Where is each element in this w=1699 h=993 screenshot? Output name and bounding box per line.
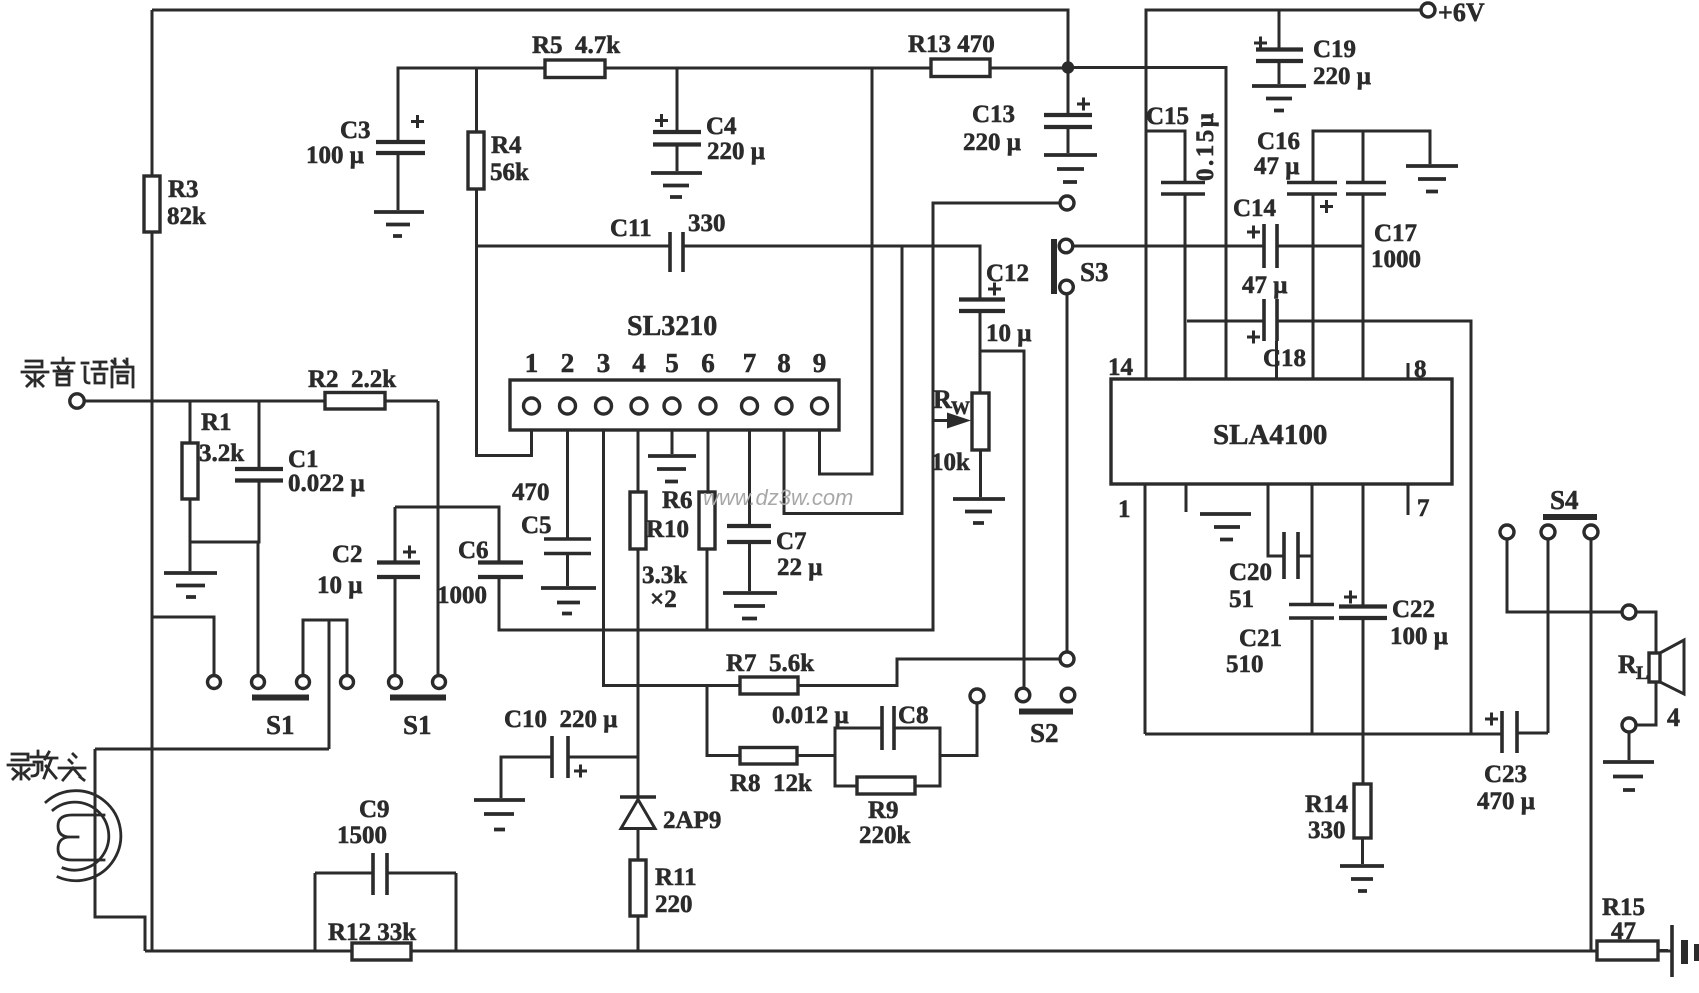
svg-text:C19: C19 (1313, 36, 1356, 63)
wire line C through C22 to R14 (1361, 484, 1365, 864)
wire R2 output down to S1 (437, 401, 440, 676)
svg-text:R11: R11 (655, 864, 697, 891)
wire RW bottom to ground (979, 450, 982, 497)
wire pin9 to supply x872 (820, 68, 873, 474)
resistor R7 (740, 677, 798, 694)
pin 4 (631, 398, 647, 414)
capacitor C16 (1287, 183, 1337, 195)
resistor R5 (545, 60, 605, 78)
svg-text:R1: R1 (201, 409, 232, 436)
head inner crescent (53, 802, 109, 870)
resistor R12 (352, 943, 411, 960)
svg-text:4: 4 (1667, 703, 1680, 732)
ground C3 (374, 212, 424, 236)
svg-text:220: 220 (655, 891, 693, 918)
svg-text:C12: C12 (986, 260, 1029, 287)
wire S1a tap from rail (152, 617, 214, 676)
wire pin8 to C11 line x902 (784, 247, 902, 514)
capacitor C3 (376, 142, 425, 153)
svg-text:56k: 56k (490, 159, 529, 186)
svg-text:C11: C11 (610, 215, 652, 242)
svg-text:10 μ: 10 μ (317, 572, 362, 599)
wire R1 C1 bottom join (190, 481, 259, 571)
wire C1 top tap (258, 401, 261, 467)
capacitor C6 (478, 563, 523, 578)
wire R5/R13 feed line y68 (398, 68, 1068, 141)
svg-text:3.3k: 3.3k (642, 562, 687, 589)
svg-text:220 μ: 220 μ (1313, 63, 1371, 90)
svg-text:R3: R3 (168, 176, 199, 203)
switch S4 bar (1543, 514, 1597, 520)
capacitor C12 (959, 300, 1005, 312)
svg-text:2: 2 (561, 348, 575, 378)
svg-text:www.dz3w.com: www.dz3w.com (703, 485, 853, 510)
svg-text:C18: C18 (1263, 345, 1306, 372)
diode D1 2AP9 (620, 795, 656, 799)
wire C20 to line B (1298, 555, 1312, 558)
svg-text:C2: C2 (332, 541, 363, 568)
node junction dot R13/C13 (1062, 61, 1074, 73)
node speaker top terminal (1622, 605, 1636, 619)
svg-text:R9: R9 (868, 797, 899, 824)
op-amp U1 SL3210 (510, 380, 839, 430)
node label 录放头 (record/play head) (8, 751, 85, 780)
svg-text:2AP9: 2AP9 (663, 807, 721, 834)
wire bottom rail (145, 950, 1672, 953)
wire C15 jog and drop (1147, 131, 1185, 379)
svg-text:S2: S2 (1030, 718, 1059, 748)
svg-text:C16: C16 (1257, 128, 1300, 155)
svg-text:C23: C23 (1484, 761, 1527, 788)
wire R7 right to S2 terminal (798, 659, 1060, 686)
wire R8 right to C8 box (797, 754, 835, 757)
capacitor C23 (1502, 711, 1517, 753)
svg-text:R12 33k: R12 33k (328, 919, 416, 946)
ground C19 (1252, 86, 1306, 111)
capacitor C8 (882, 706, 894, 750)
svg-text:C1: C1 (288, 446, 319, 473)
resistor R10 (630, 492, 646, 549)
svg-text:S4: S4 (1550, 485, 1579, 515)
ground C10 (474, 800, 525, 830)
svg-text:C4: C4 (706, 113, 737, 140)
wire line B through C21 (1311, 484, 1314, 734)
resistor R13 (931, 59, 990, 77)
wire pin3 down to R7 (604, 430, 741, 686)
svg-text:C9: C9 (359, 796, 390, 823)
wire C2 risers (394, 507, 397, 676)
pin 7 (742, 398, 758, 414)
wire R4 branch down to pin1 jog (477, 189, 532, 456)
svg-text:1: 1 (525, 348, 539, 378)
resistor R3 (144, 176, 160, 232)
wire head vertical and bottom jog (95, 749, 145, 951)
svg-text:14: 14 (1108, 354, 1134, 381)
wire speaker ground riser (1628, 732, 1631, 760)
resistor R6 (699, 492, 715, 549)
pin 2 (560, 398, 576, 414)
capacitor C19 (1256, 50, 1303, 62)
ground C4 (651, 173, 702, 197)
potentiometer RW (972, 393, 989, 450)
wire C2/C6 top jog y507 (395, 507, 499, 562)
svg-text:4: 4 (632, 348, 646, 378)
wire S4 middle to C23 (1547, 539, 1550, 733)
wire SLA pin8 stub (1407, 363, 1410, 379)
wire C11 line y246 (477, 246, 981, 298)
wire C8/R9 box outline (835, 703, 977, 786)
svg-text:C7: C7 (776, 528, 807, 555)
wire SLA pin1 drop to bottom line (1144, 484, 1147, 734)
svg-text:W: W (951, 398, 970, 419)
svg-text:1500: 1500 (337, 822, 387, 849)
svg-text:0.022 μ: 0.022 μ (288, 470, 365, 497)
wire C4 drop (676, 68, 679, 130)
speaker RL (1649, 653, 1660, 682)
svg-text:220 μ: 220 μ (707, 138, 765, 165)
wire C19 tap (1278, 10, 1281, 84)
svg-text:470 μ: 470 μ (1477, 788, 1535, 815)
svg-text:0.012 μ: 0.012 μ (772, 702, 849, 729)
op-amp U2 SLA4100 (1111, 379, 1452, 484)
svg-text:1000: 1000 (437, 582, 487, 609)
svg-text:L: L (1636, 663, 1649, 684)
svg-text:8: 8 (777, 348, 791, 378)
svg-text:9: 9 (813, 348, 827, 378)
capacitor C20 (1284, 532, 1298, 579)
svg-text:1: 1 (1118, 496, 1131, 523)
ground R1/C1 (164, 573, 217, 597)
wire R7 to R8 connector (707, 686, 740, 756)
svg-text:47 μ: 47 μ (1254, 153, 1299, 180)
wire left rail x152 (151, 10, 154, 951)
ground C13 (1044, 155, 1097, 182)
svg-text:R8 12k: R8 12k (730, 770, 812, 797)
wire C12 to S2 left contact (980, 351, 1024, 689)
svg-text:6: 6 (701, 348, 715, 378)
capacitor C21 (1289, 605, 1334, 619)
wire pin6 R6 to bus (707, 430, 708, 630)
wire microphone line y401 (85, 400, 439, 403)
wire S3 top line to C14/C17 (1073, 245, 1363, 248)
node speaker bottom terminal (1622, 718, 1636, 732)
svg-text:R7 5.6k: R7 5.6k (726, 650, 814, 677)
svg-text:R6: R6 (662, 487, 693, 514)
switch S1a contact circles (208, 676, 221, 689)
wire S3 bottom to S2 terminal (1066, 294, 1069, 653)
svg-text:330: 330 (688, 210, 726, 237)
svg-text:S1: S1 (266, 710, 295, 740)
wire C10 right to diode line (568, 756, 638, 759)
svg-text:R13 470: R13 470 (908, 31, 995, 58)
svg-text:C22: C22 (1392, 596, 1435, 623)
ground R14 (1340, 866, 1384, 891)
svg-text:220 μ: 220 μ (963, 129, 1021, 156)
svg-text:×2: ×2 (650, 586, 677, 613)
head coil core (58, 815, 104, 860)
svg-text:SL3210: SL3210 (627, 311, 717, 342)
svg-text:47: 47 (1611, 918, 1636, 945)
switch S3 bar (1051, 239, 1057, 294)
resistor R14 (1354, 784, 1371, 838)
wire C13 body line (1067, 129, 1070, 153)
wire speaker bottom (1636, 682, 1656, 725)
resistor R9 (857, 777, 915, 794)
svg-text:10 μ: 10 μ (986, 320, 1031, 347)
svg-text:S1: S1 (403, 710, 432, 740)
capacitor C10 (552, 736, 568, 778)
capacitor C17 (1346, 183, 1386, 195)
wire S4 right to bottom rail (1590, 539, 1593, 951)
switch S2 bar (1019, 709, 1073, 715)
svg-text:510: 510 (1226, 651, 1264, 678)
resistor R1 (182, 443, 198, 499)
capacitor C7 (727, 526, 771, 542)
wire C16 C17 bottoms to IC (1313, 194, 1363, 379)
wire S1a contact2 riser (257, 542, 260, 676)
head outer crescent (46, 791, 121, 881)
capacitor C2 (377, 563, 420, 578)
svg-text:R10: R10 (646, 516, 689, 543)
node +6V terminal (1421, 3, 1435, 17)
wire S4 left to speaker (1507, 539, 1622, 612)
capacitor C18 (1264, 299, 1277, 341)
svg-text:8: 8 (1414, 356, 1427, 383)
svg-text:C5: C5 (521, 512, 552, 539)
svg-text:R: R (1618, 650, 1637, 679)
svg-text:7: 7 (743, 348, 757, 378)
wire C9 R12 parallel box (315, 873, 456, 951)
wire pin4 R10 diode R11 chain (637, 430, 640, 951)
svg-text:3: 3 (597, 348, 611, 378)
ground speaker (1603, 762, 1654, 790)
ground pin5 (648, 456, 696, 482)
svg-text:7: 7 (1417, 495, 1430, 522)
svg-text:R2 2.2k: R2 2.2k (308, 366, 396, 393)
node microphone terminal (70, 394, 84, 408)
svg-text:C17: C17 (1374, 220, 1417, 247)
wire C10 left with ground riser (501, 757, 552, 798)
svg-text:220k: 220k (859, 822, 911, 849)
node terminal S2 upper (1060, 652, 1074, 666)
svg-text:100 μ: 100 μ (1390, 623, 1448, 650)
svg-text:C20: C20 (1229, 559, 1272, 586)
svg-text:R15: R15 (1602, 894, 1645, 921)
svg-text:C14: C14 (1233, 195, 1277, 222)
wire C16 C17 top jog to ground (1313, 131, 1430, 181)
svg-text:SLA4100: SLA4100 (1213, 419, 1327, 451)
ground RW (953, 499, 1005, 523)
wire C12 riser and bottom (979, 313, 982, 393)
pin 1 (524, 398, 540, 414)
svg-text:C6: C6 (458, 537, 489, 564)
svg-text:R: R (933, 385, 952, 414)
switch S1b contact circles (389, 676, 402, 689)
wire pin5 to ground (671, 430, 674, 454)
svg-text:3.2k: 3.2k (199, 440, 244, 467)
capacitor C9 (373, 853, 387, 895)
resistor R11 (630, 860, 646, 916)
svg-text:51: 51 (1229, 586, 1254, 613)
node terminal above S3 (1060, 196, 1074, 210)
switch S3 contacts (1059, 239, 1073, 253)
svg-text:5: 5 (665, 348, 679, 378)
wire C18 line y321 (1187, 321, 1471, 734)
svg-text:82k: 82k (167, 203, 206, 230)
svg-text:1000: 1000 (1371, 246, 1421, 273)
wire SLA gnd pin stub (1185, 484, 1188, 512)
battery B1 (1670, 925, 1674, 977)
svg-text:+6V: +6V (1438, 0, 1485, 27)
svg-text:C3: C3 (340, 117, 371, 144)
capacitor C4 (653, 132, 701, 145)
switch S4 contacts (1500, 525, 1514, 539)
wire SLA pin7 stub (1407, 484, 1410, 515)
node terminal above R9 box (970, 689, 984, 703)
switch S2 contacts (1016, 688, 1030, 702)
resistor R8 (740, 748, 797, 765)
svg-text:S3: S3 (1080, 257, 1109, 287)
ground C16/C17 (1406, 166, 1458, 192)
capacitor C5 (544, 539, 591, 554)
wire junction to SLA4100 pin line x1226 (1068, 68, 1226, 380)
capacitor C13 (1044, 115, 1092, 127)
svg-text:C8: C8 (898, 702, 929, 729)
svg-text:47 μ: 47 μ (1242, 272, 1287, 299)
capacitor C15 (1161, 183, 1205, 195)
pin 6 (700, 398, 716, 414)
resistor R4 (468, 132, 484, 189)
wire C18 right plate to IC (1275, 341, 1278, 379)
wire S1a bridge contacts 3-4 (303, 620, 347, 676)
pin 8 (776, 398, 792, 414)
svg-text:C13: C13 (972, 101, 1015, 128)
svg-text:R5 4.7k: R5 4.7k (532, 32, 620, 59)
switch S1a bar (252, 695, 309, 701)
svg-text:C10 220 μ: C10 220 μ (504, 706, 617, 733)
svg-text:100 μ: 100 μ (306, 142, 364, 169)
capacitor C14 (1264, 224, 1277, 268)
svg-text:C15: C15 (1146, 103, 1189, 130)
resistor R15 (1597, 941, 1658, 960)
svg-text:470: 470 (512, 479, 550, 506)
svg-text:10k: 10k (931, 449, 970, 476)
ground SLA4100 pin (1200, 514, 1251, 540)
wire top-left supply rail (152, 10, 1068, 113)
capacitor C1 (235, 469, 283, 481)
pin 9 (812, 398, 828, 414)
node label 录音话筒 (microphone input) (22, 358, 133, 387)
wire speaker top (1636, 612, 1656, 653)
svg-text:R14: R14 (1305, 791, 1349, 818)
wire R15 to battery (1658, 949, 1668, 952)
capacitor C22 (1339, 607, 1387, 619)
svg-text:C21: C21 (1239, 625, 1282, 652)
svg-text:22 μ: 22 μ (777, 554, 822, 581)
switch S1b bar (390, 695, 446, 701)
svg-text:330: 330 (1308, 817, 1346, 844)
wire C20 line A (1268, 484, 1284, 556)
wire SLA bottom line y734 (1145, 733, 1548, 734)
wire C6 bottom riser to bus (498, 579, 501, 630)
wire terminal to RW wiper and signal bus y630 (499, 203, 1061, 630)
wire bridge to head line (328, 620, 331, 749)
wire pin7 to C7 (748, 430, 751, 591)
wire R1 top tap (189, 401, 192, 443)
wire pin2 to C5 (566, 430, 569, 586)
pin 3 (596, 398, 612, 414)
svg-text:R4: R4 (491, 132, 522, 159)
resistor R2 (325, 393, 385, 410)
wire +6V rail to SLA4100 pin14 (1146, 10, 1421, 379)
pin 5 (664, 398, 680, 414)
svg-text:0.15μ: 0.15μ (1192, 111, 1219, 181)
capacitor C11 (670, 232, 683, 272)
wire head line y749 (95, 748, 329, 751)
